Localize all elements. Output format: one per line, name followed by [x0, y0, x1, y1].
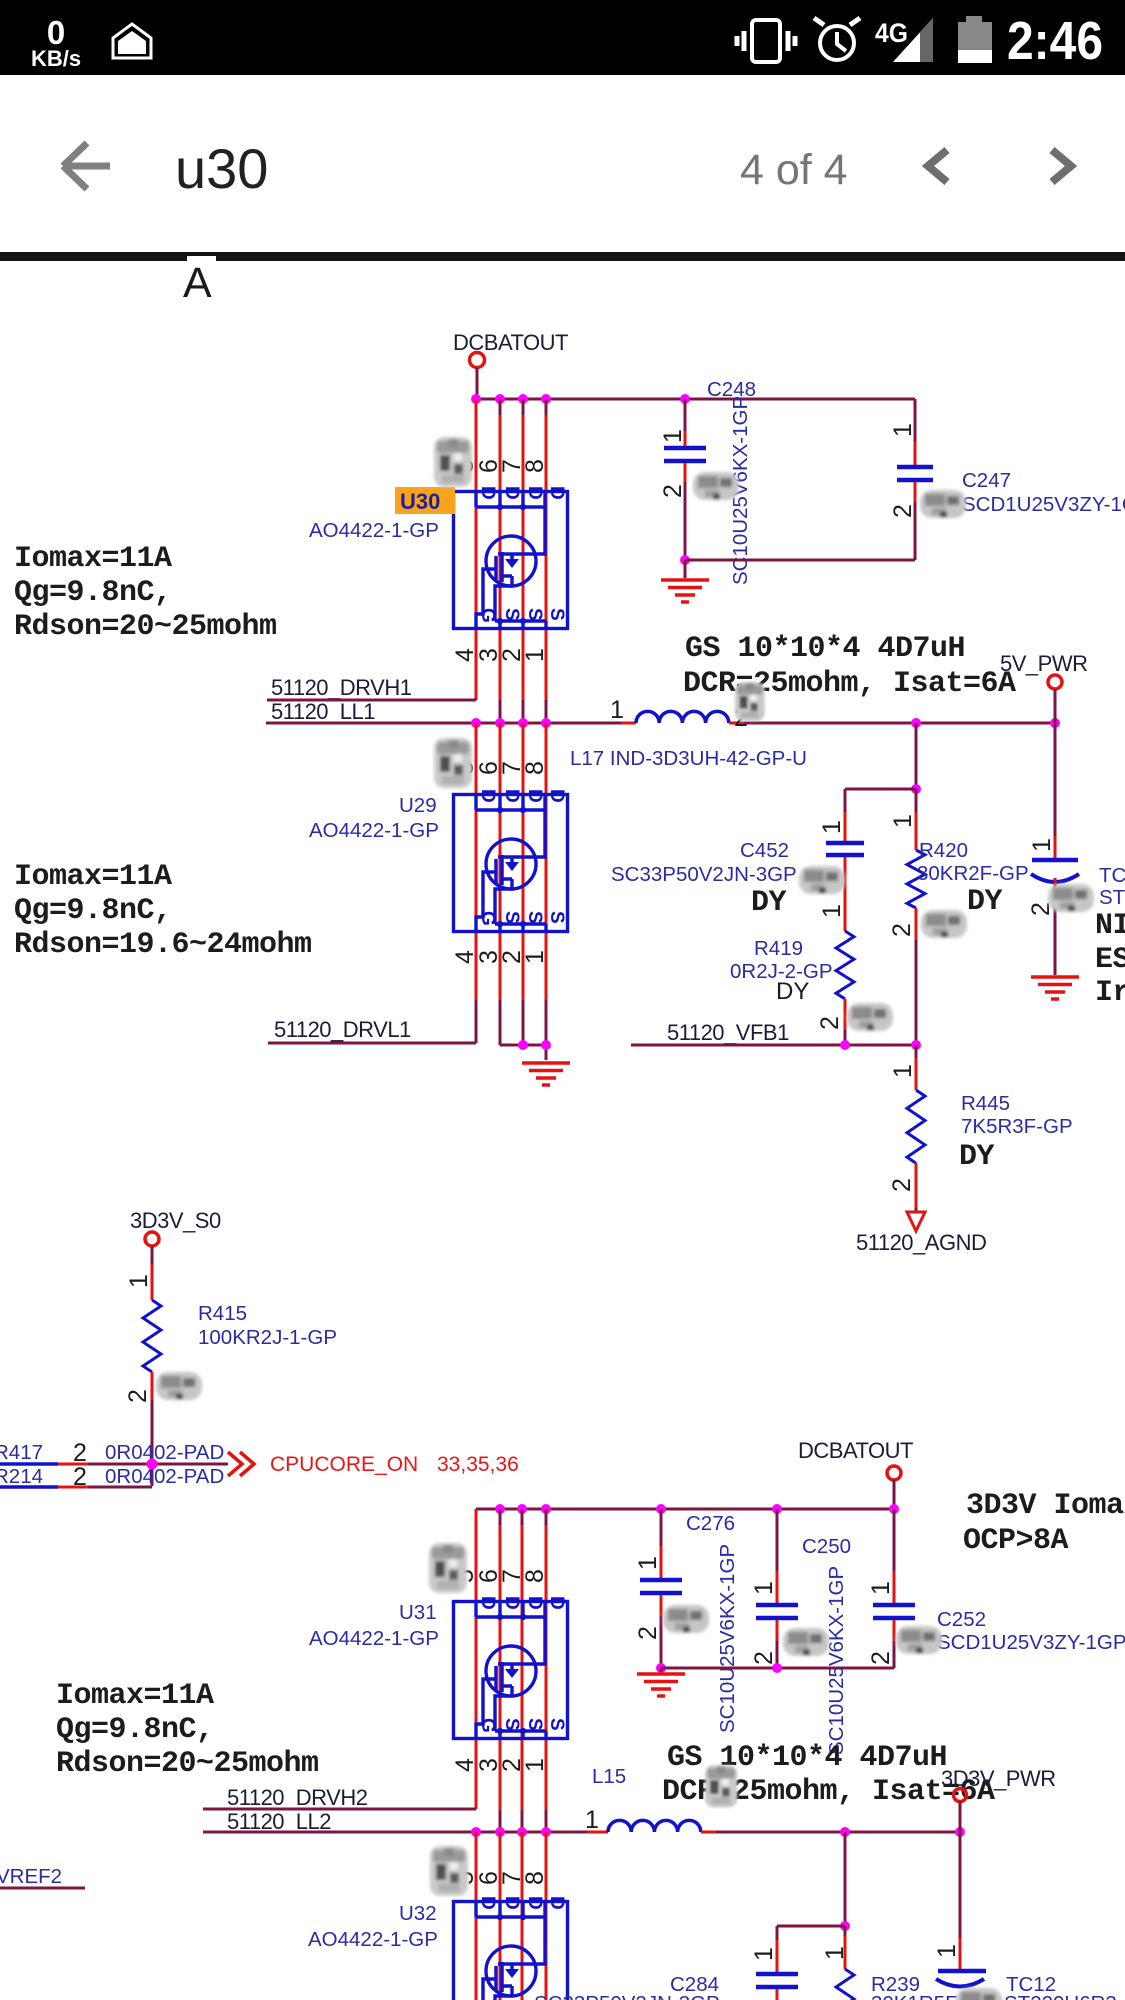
svg-text:1: 1	[867, 1581, 895, 1595]
wire U32 pin5 column	[475, 1832, 478, 2000]
stamp near U30	[434, 437, 472, 487]
svg-text:2: 2	[659, 484, 687, 498]
svg-text:1: 1	[659, 429, 687, 443]
pin numbers U31 bottom	[451, 1758, 549, 1772]
wire U30 pin5 column	[475, 399, 478, 698]
home icon	[113, 24, 151, 58]
pin numbers U30 top	[451, 459, 549, 473]
svg-text:1: 1	[1028, 838, 1056, 852]
svg-text:R214: R214	[0, 1465, 43, 1488]
svg-text:1: 1	[818, 820, 846, 834]
svg-text:C276: C276	[686, 1512, 735, 1535]
wire 51120_LL1	[266, 722, 621, 725]
vibrate icon	[737, 20, 795, 62]
stamp near L17	[735, 682, 765, 721]
svg-text:Rdson=20~25mohm: Rdson=20~25mohm	[14, 610, 277, 644]
capacitor C248	[684, 399, 687, 431]
junction dot CPUCORE_ON	[147, 1459, 158, 1470]
svg-text:KB/s: KB/s	[31, 46, 81, 71]
wire U29 source tie	[500, 1045, 546, 1060]
off-page connector CPUCORE_ON	[228, 1452, 254, 1476]
wire lower DCBAT bus	[476, 1508, 894, 1511]
wire 51120_LL2	[203, 1831, 587, 1834]
svg-text:2: 2	[124, 1389, 152, 1403]
wire DCBATOUT stub	[476, 368, 479, 397]
capacitor C247	[914, 399, 917, 441]
wire U32 pin6 column	[499, 1832, 502, 2000]
svg-text:51120_LL1: 51120_LL1	[271, 699, 375, 724]
svg-text:2: 2	[634, 1626, 662, 1640]
wire R420 column top	[915, 723, 918, 789]
network speed text 0 KB/s	[31, 14, 81, 71]
wire U29 pin1 maroon tail	[545, 1000, 548, 1045]
junction dot C276 bottom	[656, 1663, 666, 1673]
svg-text:5V_PWR: 5V_PWR	[1000, 651, 1087, 676]
svg-text:R415: R415	[198, 1302, 247, 1325]
svg-text:ST2: ST2	[1099, 886, 1125, 909]
U31 parameters note	[56, 1679, 319, 1781]
wire U29 pin3 maroon tail	[499, 1000, 502, 1045]
node 51120_AGND arrow	[907, 1212, 925, 1231]
stamp near U29	[434, 738, 472, 788]
svg-text:51120_AGND: 51120_AGND	[856, 1230, 986, 1255]
svg-text:1: 1	[750, 1581, 778, 1595]
svg-text:U32: U32	[399, 1902, 437, 1925]
wire 5V_PWR stub	[1054, 689, 1057, 723]
3D3V note	[963, 1489, 1125, 1558]
svg-text:C252: C252	[937, 1608, 986, 1631]
inductor note lower	[662, 1741, 995, 1809]
svg-text:R417: R417	[0, 1441, 43, 1464]
svg-text:DY: DY	[967, 885, 1003, 919]
svg-text:1: 1	[750, 1947, 778, 1961]
resistor R415	[151, 1246, 154, 1264]
junction dots LL1	[471, 718, 1060, 728]
capacitor C284	[776, 1926, 779, 1940]
border notch	[187, 256, 216, 261]
svg-text:2: 2	[867, 1651, 895, 1665]
svg-text:U29: U29	[399, 794, 437, 817]
stamp near R420	[921, 910, 967, 938]
svg-text:Qg=9.8nC,: Qg=9.8nC,	[14, 576, 172, 610]
svg-text:R420: R420	[919, 839, 968, 862]
resistor R420	[915, 789, 918, 812]
junction dot R420 branch	[911, 784, 921, 794]
inductor note	[683, 632, 1016, 701]
wire U31 pin3 maroon tail	[499, 1810, 502, 1832]
ground C248	[661, 580, 709, 602]
junction dots source tie	[518, 1040, 528, 1050]
svg-text:4 of 4: 4 of 4	[740, 146, 848, 194]
inductor L17	[636, 711, 729, 723]
junction dots lower bus	[495, 1504, 899, 1514]
svg-text:Qg=9.8nC,: Qg=9.8nC,	[14, 894, 172, 928]
svg-text:51120_DRVH2: 51120_DRVH2	[227, 1785, 368, 1810]
wire DCBATOUT stub lower	[893, 1480, 896, 1509]
svg-text:1: 1	[125, 1274, 153, 1288]
capacitor TC polarized	[1032, 858, 1078, 863]
svg-text:1: 1	[889, 423, 917, 437]
wire U29 pin5 column	[475, 723, 478, 1000]
svg-text:DCBATOUT: DCBATOUT	[798, 1438, 913, 1463]
svg-text:SC33P50V2JN-3GP: SC33P50V2JN-3GP	[534, 1992, 720, 2000]
svg-text:0R0402-PAD: 0R0402-PAD	[105, 1465, 224, 1488]
stamp near C247	[920, 490, 966, 518]
wire branch to C452	[845, 788, 916, 791]
stamp near C250	[783, 1628, 829, 1656]
svg-text:SCD1U25V3ZY-1GP: SCD1U25V3ZY-1GP	[962, 493, 1125, 516]
svg-text:1: 1	[521, 950, 549, 964]
svg-text:2: 2	[888, 1178, 916, 1192]
svg-text:L15: L15	[592, 1765, 626, 1788]
svg-text:Rdson=20~25mohm: Rdson=20~25mohm	[56, 1747, 319, 1781]
svg-text:ESR: ESR	[1095, 943, 1125, 977]
svg-text:DY: DY	[751, 886, 787, 920]
ground U29	[522, 1063, 570, 1085]
U29 parameters note	[14, 860, 312, 962]
svg-text:1: 1	[818, 904, 846, 918]
svg-text:1: 1	[634, 1556, 662, 1570]
stamp near U32	[430, 1846, 468, 1896]
U30 parameters note	[14, 542, 277, 644]
svg-text:Qg=9.8nC,: Qg=9.8nC,	[56, 1713, 214, 1747]
svg-text:Iomax=11A: Iomax=11A	[56, 1679, 214, 1713]
wire U29 pin2 maroon tail	[522, 1000, 525, 1045]
svg-text:0R0402-PAD: 0R0402-PAD	[105, 1441, 224, 1464]
svg-text:51120_VFB1: 51120_VFB1	[667, 1020, 789, 1045]
junction dots top bus	[471, 394, 690, 404]
wire R417	[0, 1462, 58, 1466]
U30 highlighted refdes	[395, 487, 455, 514]
resistor R419	[836, 931, 854, 999]
stamp near U31	[429, 1543, 467, 1593]
svg-text:8: 8	[521, 761, 549, 775]
wire 51120_DRVL1	[268, 1042, 476, 1045]
svg-text:R419: R419	[754, 937, 803, 960]
svg-text:C452: C452	[740, 839, 789, 862]
svg-text:1: 1	[521, 1758, 549, 1772]
svg-text:1: 1	[610, 696, 624, 724]
pin numbers U30 bottom	[451, 648, 549, 662]
transistor U31	[454, 1596, 568, 1739]
svg-text:3D3V_S0: 3D3V_S0	[130, 1208, 221, 1233]
capacitor C452	[844, 789, 847, 812]
svg-text:8: 8	[521, 1569, 549, 1583]
wire U31 pin7 column	[521, 1509, 524, 1525]
back arrow	[63, 143, 110, 189]
wire U29 pin6 column	[499, 723, 502, 1000]
svg-text:SC10U25V6KX-1GP: SC10U25V6KX-1GP	[716, 1544, 739, 1733]
svg-text:51120_DRVL1: 51120_DRVL1	[274, 1017, 411, 1042]
svg-text:7K5R3F-GP: 7K5R3F-GP	[961, 1115, 1073, 1138]
wire U30 pin7 column	[522, 399, 525, 415]
stamp near L15	[705, 1765, 737, 1808]
svg-text:1: 1	[585, 1806, 599, 1834]
alarm clock icon	[814, 18, 860, 60]
wire U30 pin1 maroon tail	[545, 700, 548, 723]
wire top DCBAT bus	[476, 398, 915, 401]
wire U30 pin6 column	[499, 399, 502, 415]
svg-text:L17 IND-3D3UH-42-GP-U: L17 IND-3D3UH-42-GP-U	[570, 747, 807, 770]
wire U31 pin5 column	[475, 1509, 478, 1809]
svg-text:1: 1	[933, 1944, 961, 1958]
svg-text:DY: DY	[776, 978, 809, 1005]
wire lower cap return	[661, 1668, 894, 1672]
svg-text:51120_LL2: 51120_LL2	[227, 1809, 331, 1834]
pin numbers U32 top	[451, 1871, 549, 1885]
svg-text:Iomax=11A: Iomax=11A	[14, 860, 172, 894]
wire U29 pin7 column	[522, 723, 525, 1000]
battery icon	[966, 16, 982, 24]
junction dots LL2	[471, 1827, 965, 1837]
wire VREF2	[0, 1887, 85, 1890]
svg-text:NIC: NIC	[1095, 909, 1125, 943]
svg-text:SCD1U25V3ZY-1GP: SCD1U25V3ZY-1GP	[937, 1631, 1125, 1654]
svg-text:AO4422-1-GP: AO4422-1-GP	[309, 819, 439, 842]
stamp near C276	[663, 1605, 709, 1633]
wire U32 pin7 column	[521, 1832, 524, 2000]
wire 51120_DRVH2	[203, 1808, 476, 1811]
svg-text:Rdson=19.6~24mohm: Rdson=19.6~24mohm	[14, 928, 312, 962]
svg-text:AO4422-1-GP: AO4422-1-GP	[309, 1627, 439, 1650]
svg-text:TC4: TC4	[1099, 864, 1125, 887]
svg-text:VREF2: VREF2	[0, 1865, 62, 1888]
wire R214	[0, 1485, 58, 1489]
svg-text:DY: DY	[959, 1140, 995, 1174]
ground C276	[637, 1674, 685, 1696]
wire 3D3V branch down	[844, 1832, 847, 1926]
wire U30 pin3 maroon tail	[499, 700, 502, 723]
svg-text:SC33P50V2JN-3GP: SC33P50V2JN-3GP	[611, 863, 797, 886]
svg-text:SC10U25V6KX-1GP: SC10U25V6KX-1GP	[825, 1566, 848, 1755]
wire U30 pin8 column	[545, 399, 548, 415]
wire 5V_PWR branch down	[1054, 723, 1057, 836]
svg-text:u30: u30	[175, 137, 268, 200]
wire 51120_VFB1	[631, 1044, 916, 1047]
page top border bar	[0, 252, 1125, 261]
svg-text:33,35,36: 33,35,36	[437, 1453, 519, 1476]
stamp near C452	[799, 866, 845, 894]
svg-text:2: 2	[816, 1016, 844, 1030]
wire U32 pin8 column	[545, 1832, 548, 2000]
svg-text:2: 2	[750, 1651, 778, 1665]
svg-text:AO4422-1-GP: AO4422-1-GP	[308, 1928, 438, 1951]
svg-text:ST220U6R3: ST220U6R3	[1004, 1992, 1117, 2000]
junction dot C250 bottom	[772, 1663, 782, 1673]
pin numbers U29 top	[451, 761, 549, 775]
svg-text:CPUCORE_ON: CPUCORE_ON	[270, 1453, 418, 1476]
svg-text:AO4422-1-GP: AO4422-1-GP	[309, 519, 439, 542]
stamp near R419	[847, 1003, 893, 1031]
svg-text:U31: U31	[399, 1601, 437, 1624]
status bar background	[0, 0, 1125, 75]
svg-text:GS 10*10*4 4D7uH: GS 10*10*4 4D7uH	[685, 632, 965, 666]
wire U30 pin2 maroon tail	[522, 700, 525, 723]
svg-text:R445: R445	[961, 1092, 1010, 1115]
wire C248 return	[685, 560, 915, 578]
stamp near TC	[1048, 884, 1094, 912]
svg-text:100KR2J-1-GP: 100KR2J-1-GP	[198, 1326, 337, 1349]
wire U29 pin8 column	[545, 723, 548, 1000]
previous chevron	[928, 150, 947, 182]
svg-text:1: 1	[521, 648, 549, 662]
stamp near C248	[693, 472, 739, 500]
svg-text:C247: C247	[962, 469, 1011, 492]
capacitor C250	[776, 1509, 779, 1571]
stamp near R415	[156, 1372, 202, 1400]
svg-text:A: A	[183, 259, 212, 307]
capacitor TC12 polarized	[959, 1832, 962, 1938]
transistor U30	[454, 486, 568, 629]
wire U31 pin2 maroon tail	[521, 1810, 524, 1832]
svg-text:2: 2	[888, 923, 916, 937]
junction dot branch	[840, 1921, 850, 1931]
wire branch to C284	[777, 1925, 845, 1928]
svg-text:8: 8	[521, 1871, 549, 1885]
svg-text:DCBATOUT: DCBATOUT	[453, 330, 568, 355]
resistor R445	[915, 1045, 918, 1058]
svg-text:51120_DRVH1: 51120_DRVH1	[271, 675, 412, 700]
junction dots VFB1	[840, 1040, 850, 1050]
svg-text:8: 8	[521, 459, 549, 473]
svg-text:Iomax=11A: Iomax=11A	[14, 542, 172, 576]
transistor U32	[454, 1896, 568, 2000]
svg-text:2: 2	[889, 504, 917, 518]
svg-text:C250: C250	[802, 1535, 851, 1558]
next chevron	[1052, 150, 1071, 182]
svg-text:Ir=: Ir=	[1095, 976, 1125, 1010]
svg-text:2:46: 2:46	[1007, 11, 1103, 71]
wire U29 pin4 maroon tail	[475, 1000, 478, 1043]
svg-text:DCR=25mohm, Isat=6A: DCR=25mohm, Isat=6A	[683, 667, 1016, 701]
svg-text:1: 1	[821, 1946, 849, 1960]
svg-text:30KR2F-GP: 30KR2F-GP	[917, 862, 1029, 885]
stamp near C252	[896, 1626, 942, 1654]
stamp bottom right	[956, 1988, 1002, 2000]
svg-text:1: 1	[889, 814, 917, 828]
wire U31 pin1 maroon tail	[545, 1810, 548, 1832]
junction dot C248 bottom	[680, 555, 690, 565]
wire 51120_DRVH1	[267, 698, 476, 700]
pin numbers U31 top	[451, 1569, 549, 1583]
ground TC	[1031, 977, 1079, 999]
pin numbers U29 bottom	[451, 950, 549, 964]
transistor U29	[454, 789, 568, 932]
capacitor C252	[893, 1509, 896, 1571]
svg-text:3D3V Iomax: 3D3V Iomax	[966, 1489, 1125, 1523]
inductor L15	[608, 1820, 701, 1832]
wire U31 pin6 column	[499, 1509, 502, 1525]
wire U31 pin8 column	[545, 1509, 548, 1525]
capacitor C276	[660, 1509, 663, 1546]
svg-text:1: 1	[889, 1064, 917, 1078]
svg-text:U30: U30	[400, 489, 440, 514]
svg-text:OCP>8A: OCP>8A	[963, 1524, 1069, 1558]
svg-text:4G: 4G	[875, 18, 908, 48]
resistor R239	[844, 1926, 847, 1936]
